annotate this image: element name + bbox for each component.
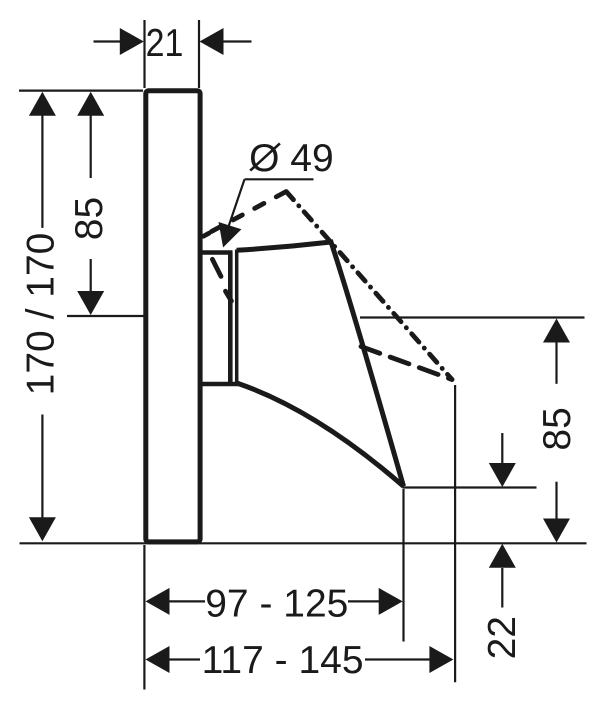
svg-text:97 - 125: 97 - 125	[205, 583, 348, 626]
svg-text:85: 85	[68, 197, 111, 240]
svg-text:85: 85	[536, 407, 579, 450]
svg-text:22: 22	[481, 616, 524, 659]
svg-text:117 - 145: 117 - 145	[202, 639, 364, 682]
svg-text:170 / 170: 170 / 170	[19, 233, 62, 396]
svg-text:21: 21	[146, 21, 184, 65]
